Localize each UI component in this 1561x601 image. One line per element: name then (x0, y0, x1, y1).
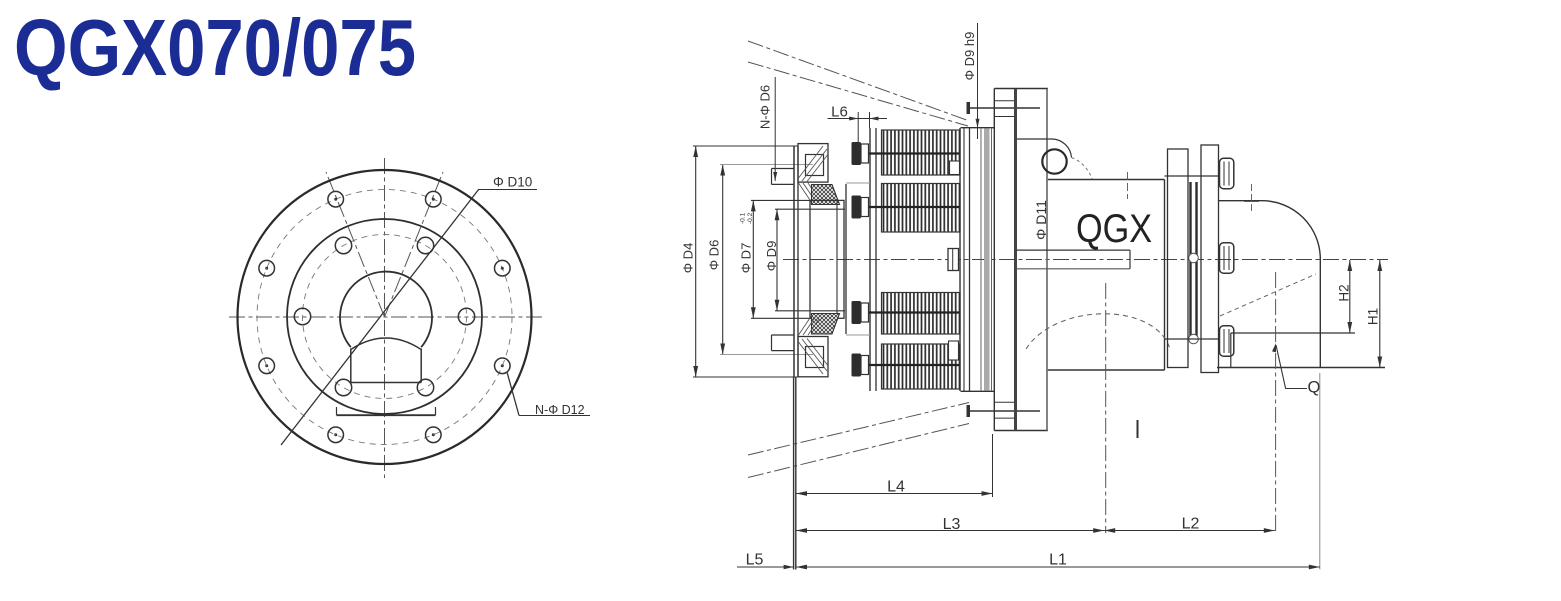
bottom face line (1217, 367, 1385, 369)
projection diagonal top 1 (748, 41, 968, 121)
svg-text:QGX070/075: QGX070/075 (14, 3, 416, 92)
dimension L2 (1104, 530, 1275, 532)
stud bolt bottom (968, 410, 1040, 412)
svg-text:Φ D9 h9: Φ D9 h9 (962, 32, 977, 81)
clamp bolts x4 (through springs) (852, 142, 862, 165)
flange right face plate (845, 184, 847, 334)
svg-text:Φ D6: Φ D6 (707, 240, 722, 271)
front view vertical centerline (384, 158, 386, 478)
flange inner circle (287, 219, 482, 414)
flange bolt hole upper-left (772, 168, 795, 170)
port base tick left (336, 407, 338, 415)
label D6 (707, 240, 722, 271)
seat line top (grey) (846, 182, 870, 184)
top seal ring (cross-hatched) (812, 185, 840, 205)
port dome arc (351, 338, 421, 350)
housing top centre tick (1127, 172, 1129, 199)
flange disc left face (793, 146, 795, 377)
shaft grey band (984, 129, 990, 391)
label D9 h9 (962, 32, 977, 81)
spring cage left plate (869, 128, 871, 391)
dimension line H2 (1349, 260, 1351, 333)
flange plate P2 interface (1014, 89, 1017, 431)
outlet boss left wall (1230, 333, 1232, 368)
seat line bottom (grey) (846, 334, 870, 336)
housing top edge (1048, 179, 1165, 181)
bolt centerline to upper-right hole (385, 172, 444, 317)
spring guide block upper (950, 161, 960, 175)
mark below housing (1137, 420, 1139, 438)
callout line N-D6 (774, 77, 776, 181)
elbow top centre mark (1251, 184, 1253, 213)
spring band 1 (882, 130, 961, 175)
outlet flange bolts x3 (1220, 158, 1234, 188)
flange plate P2 right edge (1046, 89, 1048, 431)
dimension L3 (796, 530, 1104, 532)
svg-text:L3: L3 (943, 516, 961, 533)
svg-text:-0.1: -0.1 (740, 212, 747, 224)
svg-text:L4: L4 (887, 479, 905, 496)
projection diagonal top 2 (748, 62, 968, 126)
flange outer circle (238, 170, 532, 464)
central port circle (upper arc) (340, 272, 432, 348)
label N-D6 (758, 85, 773, 129)
front view horizontal centerline (229, 316, 543, 318)
housing bottom edge (1048, 369, 1165, 371)
dimension L5 (737, 566, 794, 568)
svg-text:L2: L2 (1182, 516, 1200, 533)
dimension line D6 (722, 165, 724, 355)
leader line N-D12 (507, 372, 519, 416)
inner bolt circle (dashed) (303, 235, 467, 399)
inner tube (1017, 249, 1131, 251)
inner bolt holes x6 (417, 237, 433, 253)
outer bolt circle (dashed) (257, 190, 512, 445)
svg-text:-0.2: -0.2 (747, 212, 754, 224)
svg-text:H1: H1 (1366, 308, 1381, 325)
label H2 (1337, 284, 1352, 301)
svg-text:L6: L6 (831, 104, 848, 121)
projection diagonal bottom 1 (748, 403, 969, 456)
bottom seal ring (cross-hatched) (812, 314, 840, 335)
reference extension line (double) (793, 377, 795, 570)
hidden passage curve (1026, 314, 1170, 349)
leader line diameter D10 (281, 189, 479, 445)
gasket bolt holes (1189, 253, 1199, 263)
outer bolt holes x8 (426, 191, 442, 207)
bolt shaft top (1165, 175, 1220, 177)
extension line L4 right (992, 434, 994, 497)
lug hole circle (1042, 149, 1066, 173)
dimension line D4 (695, 146, 697, 377)
stud bolt top (968, 107, 1040, 109)
flange top bolt block (798, 144, 828, 183)
svg-text:Q: Q (1308, 379, 1321, 397)
label D7 (739, 243, 754, 274)
extension line L1 right (1319, 373, 1321, 570)
label D4 (681, 243, 696, 274)
svg-text:Φ D10: Φ D10 (493, 175, 532, 190)
svg-text:H2: H2 (1337, 284, 1352, 301)
elbow top line (1219, 200, 1263, 202)
outlet boss top line (1231, 332, 1355, 334)
dimension L1 (796, 566, 1320, 568)
label D9 (764, 241, 779, 272)
elbow right wall (1319, 259, 1321, 368)
svg-text:L1: L1 (1049, 552, 1067, 569)
dimension L4 (796, 493, 993, 495)
flange plate P1 (993, 89, 995, 431)
spring band 3 (882, 293, 961, 335)
svg-text:Φ D7: Φ D7 (739, 243, 754, 274)
dimension line D9 (776, 209, 778, 311)
housing right edge (1164, 180, 1166, 371)
port base tick right (435, 407, 437, 415)
dimension L6 (828, 118, 888, 120)
svg-text:N-Φ D12: N-Φ D12 (535, 403, 585, 417)
dimension line H1 (1379, 260, 1381, 368)
housing lug (1052, 139, 1072, 158)
shaft top edge (961, 127, 995, 129)
projection diagonal bottom 2 (748, 424, 969, 478)
port side wall left (350, 349, 352, 383)
svg-text:N-Φ D6: N-Φ D6 (758, 85, 773, 129)
port base line (337, 414, 436, 416)
spring band 4 (882, 344, 961, 389)
spring centre nut (948, 249, 959, 271)
svg-text:L5: L5 (746, 552, 764, 569)
bolt shaft bottom (1165, 338, 1220, 340)
port side wall right (420, 349, 422, 383)
outlet axis (dash-dot) (1275, 272, 1277, 533)
svg-text:Φ D9: Φ D9 (764, 241, 779, 272)
extension line L3 (dash-dot) (1105, 283, 1107, 533)
flange bottom bolt block (798, 337, 828, 377)
svg-text:Φ D11: Φ D11 (1033, 200, 1049, 240)
label D11 (1033, 200, 1049, 240)
sleeve body (810, 200, 844, 318)
bottom chamfer hatch (799, 315, 813, 335)
housing neck top line (1017, 138, 1052, 140)
label H1 (1366, 308, 1381, 325)
main horizontal centerline (783, 259, 1388, 261)
svg-text:Φ D4: Φ D4 (681, 243, 696, 274)
elbow outer arc (1262, 201, 1320, 259)
spring band 2 (882, 184, 961, 233)
outlet flange plate P3 (1168, 149, 1189, 368)
bolt centerline to upper-left hole (326, 172, 385, 317)
leader Q (1276, 345, 1307, 389)
port foot top line (351, 382, 421, 384)
outlet flange plate P4 (1201, 145, 1219, 373)
shaft bottom edge (961, 390, 995, 392)
svg-text:QGX: QGX (1076, 207, 1152, 251)
callout D9 h9 (977, 23, 979, 139)
dimension line D7 with tolerance (752, 200, 754, 318)
top chamfer hatch (799, 183, 813, 203)
gasket strip (1189, 182, 1191, 336)
spring guide block lower (949, 341, 959, 360)
inner cone (dashed) (1220, 274, 1316, 316)
flange bolt hole lower-left (772, 334, 795, 336)
spring cage right plate (959, 128, 961, 391)
